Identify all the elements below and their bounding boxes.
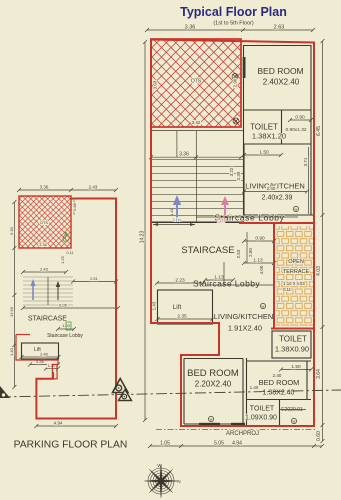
svg-text:3.64: 3.64 — [316, 369, 322, 379]
svg-text:6.05: 6.05 — [59, 303, 68, 308]
svg-text:2.53: 2.53 — [236, 249, 241, 258]
svg-text:1.09X0.90: 1.09X0.90 — [245, 415, 277, 422]
svg-text:E2020.01: E2020.01 — [281, 407, 303, 413]
svg-text:4.00: 4.00 — [259, 265, 264, 274]
svg-text:3.03: 3.03 — [153, 80, 158, 89]
svg-text:2.43: 2.43 — [40, 267, 49, 272]
svg-text:1.13: 1.13 — [214, 275, 224, 281]
svg-text:Staircase Lobby: Staircase Lobby — [47, 333, 83, 339]
svg-text:w: w — [210, 417, 213, 422]
svg-text:3.36: 3.36 — [40, 185, 49, 190]
svg-text:2.90: 2.90 — [233, 78, 238, 87]
svg-text:2.46: 2.46 — [40, 352, 49, 357]
svg-text:BED ROOM: BED ROOM — [259, 378, 300, 387]
svg-text:3.36: 3.36 — [179, 152, 189, 158]
svg-text:STAIRCASE: STAIRCASE — [28, 316, 67, 323]
svg-text:2.35: 2.35 — [177, 314, 187, 320]
svg-text:w: w — [262, 304, 265, 309]
svg-text:3.36: 3.36 — [185, 25, 196, 31]
svg-text:14.23: 14.23 — [140, 231, 146, 244]
svg-text:0.88: 0.88 — [73, 203, 77, 210]
svg-text:6.45: 6.45 — [316, 126, 322, 136]
svg-text:4.03: 4.03 — [316, 266, 322, 276]
svg-text:2.40x2.39: 2.40x2.39 — [262, 195, 293, 202]
svg-text:w: w — [295, 207, 298, 212]
svg-text:2.20X2.40: 2.20X2.40 — [195, 380, 232, 389]
svg-text:5.30: 5.30 — [9, 226, 14, 235]
svg-text:1.10 X 4.03: 1.10 X 4.03 — [283, 281, 305, 286]
svg-text:TERRACE: TERRACE — [283, 269, 310, 275]
svg-text:2.51: 2.51 — [90, 276, 99, 281]
svg-text:STAIRCASE: STAIRCASE — [181, 245, 234, 256]
svg-text:ARCHPROJ: ARCHPROJ — [226, 431, 259, 437]
svg-text:LIVING/KITCHEN: LIVING/KITCHEN — [214, 312, 274, 321]
svg-text:4.94: 4.94 — [54, 421, 63, 426]
svg-text:1.05: 1.05 — [160, 441, 170, 447]
svg-text:PARKING FLOOR PLAN: PARKING FLOOR PLAN — [14, 440, 128, 451]
svg-text:1.40: 1.40 — [250, 385, 259, 390]
svg-text:N: N — [177, 479, 180, 484]
svg-text:OTS: OTS — [191, 79, 202, 85]
svg-text:2.40X2.40: 2.40X2.40 — [263, 78, 300, 87]
svg-text:1.40: 1.40 — [9, 347, 14, 356]
svg-text:0.60: 0.60 — [316, 431, 322, 441]
svg-text:1.50: 1.50 — [259, 150, 269, 156]
svg-text:Lift: Lift — [173, 304, 182, 311]
svg-text:TOILET: TOILET — [250, 123, 278, 132]
svg-text:0.90x1.32: 0.90x1.32 — [285, 127, 306, 133]
svg-text:1.38X1.20: 1.38X1.20 — [252, 132, 286, 141]
svg-text:1.50: 1.50 — [291, 364, 301, 370]
svg-text:OPEN: OPEN — [288, 259, 304, 265]
svg-text:TOILET: TOILET — [250, 406, 275, 413]
svg-text:1.25: 1.25 — [60, 255, 65, 264]
svg-text:TOILET: TOILET — [279, 335, 307, 344]
svg-text:(1st to 5th Floor): (1st to 5th Floor) — [213, 21, 254, 27]
svg-text:2.39: 2.39 — [236, 171, 241, 180]
svg-text:3.42: 3.42 — [192, 120, 201, 125]
svg-text:0.90: 0.90 — [255, 236, 265, 242]
svg-text:Dn: Dn — [217, 219, 225, 225]
svg-text:4.94: 4.94 — [232, 441, 242, 447]
svg-text:1.43: 1.43 — [152, 301, 157, 310]
svg-text:1.38X0.90: 1.38X0.90 — [275, 345, 309, 354]
svg-text:1.91X2.40: 1.91X2.40 — [228, 324, 262, 333]
svg-text:1.38X2.40: 1.38X2.40 — [263, 390, 295, 397]
svg-text:1.41: 1.41 — [169, 207, 174, 216]
svg-text:w: w — [293, 419, 296, 424]
svg-text:3.71: 3.71 — [303, 157, 308, 166]
svg-text:1.13: 1.13 — [253, 258, 263, 264]
svg-text:2.40: 2.40 — [267, 186, 276, 191]
svg-text:Up: Up — [173, 219, 181, 225]
svg-text:OTS: OTS — [40, 220, 49, 225]
svg-text:Typical Floor Plan: Typical Floor Plan — [180, 5, 287, 19]
svg-text:BED ROOM: BED ROOM — [187, 368, 239, 379]
svg-text:13.50: 13.50 — [9, 306, 14, 317]
svg-text:2.23: 2.23 — [175, 278, 185, 284]
svg-text:2.63: 2.63 — [274, 25, 285, 31]
svg-text:BED ROOM: BED ROOM — [257, 66, 303, 76]
svg-text:0.11: 0.11 — [283, 287, 292, 292]
svg-text:3.22: 3.22 — [229, 167, 234, 176]
svg-text:5.05: 5.05 — [214, 441, 224, 447]
svg-text:0.90: 0.90 — [295, 115, 305, 121]
svg-text:3.36: 3.36 — [39, 243, 46, 247]
svg-text:0.11: 0.11 — [66, 251, 73, 255]
svg-text:2.43: 2.43 — [89, 185, 98, 190]
svg-text:Staircase Lobby: Staircase Lobby — [215, 213, 285, 223]
svg-text:2.50: 2.50 — [248, 248, 253, 257]
